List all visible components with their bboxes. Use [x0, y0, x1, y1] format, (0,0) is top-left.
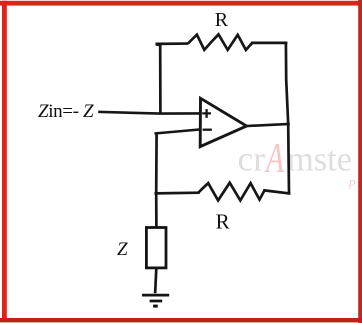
- impedance Z1 (box): [146, 228, 166, 268]
- wire: output line: [247, 124, 289, 126]
- wire: left lower vertical (inverting input to bottom node): [155, 134, 158, 194]
- wire: impedance Z to ground: [155, 269, 156, 292]
- svg-text:mste: mste: [287, 140, 352, 179]
- svg-text:Z: Z: [117, 239, 128, 260]
- resistor R1 (feedback): [188, 34, 252, 50]
- svg-text:Zin=- Z: Zin=- Z: [38, 101, 94, 122]
- label R (R1 value): [215, 9, 229, 31]
- wire: bottom horizontal left: [156, 191, 199, 194]
- svg-text:R: R: [216, 209, 230, 233]
- label Zin=-Z (input impedance): [38, 101, 94, 122]
- label R (R2 value): [216, 209, 230, 233]
- watermark (decorative): [238, 136, 357, 189]
- wire: top-left horizontal: [157, 42, 187, 45]
- label Z (impedance value): [117, 239, 128, 260]
- wire: right vertical (top node down to output junction): [286, 43, 288, 124]
- wire: input line to noninverting input: [100, 112, 200, 114]
- wire: bottom node down to impedance Z: [155, 193, 158, 226]
- svg-text:p: p: [348, 174, 356, 189]
- svg-text:cr: cr: [238, 140, 266, 179]
- wire: right vertical (output junction down to bottom resistor): [287, 124, 290, 193]
- wire: bottom horizontal right: [265, 190, 290, 193]
- wire: left vertical (top node to noninverting input): [157, 45, 160, 114]
- resistor R2 (bottom): [198, 183, 264, 201]
- ground: [142, 295, 169, 306]
- op-amp U1: [200, 98, 246, 146]
- svg-text:R: R: [215, 9, 229, 31]
- wire: inverting input line: [156, 130, 200, 134]
- svg-text:A: A: [264, 136, 284, 182]
- wire: top-right horizontal: [252, 42, 286, 45]
